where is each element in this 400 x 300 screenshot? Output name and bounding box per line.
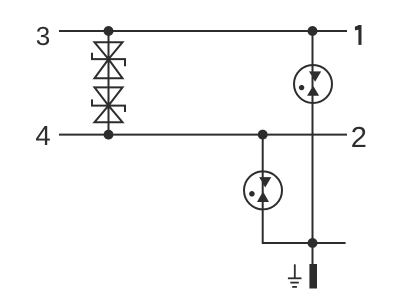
terminal label 1 (355, 25, 362, 45)
PE terminal bar (309, 264, 317, 289)
junction top-left node (104, 26, 114, 36)
junction PE node (308, 238, 318, 248)
gas discharge tube F2 (on line 2) (244, 171, 282, 209)
wire top rail 3-1 (59, 30, 347, 32)
suppressor diode D1 (bidirectional TVS, upper) (92, 42, 125, 78)
wire right branch vertical (1 to PE node) (312, 31, 314, 243)
gas discharge tube F1 (on line 1) (294, 65, 332, 103)
wire middle rail 4-2 (59, 134, 347, 136)
ground (288, 264, 302, 287)
junction bottom-left node (104, 130, 114, 140)
junction top-right node (308, 26, 318, 36)
junction middle node (line 2 branch) (258, 130, 268, 140)
svg-text:2: 2 (351, 122, 367, 154)
wire left branch vertical (108, 31, 110, 135)
svg-text:3: 3 (36, 21, 50, 51)
wire middle branch vertical (2 down to PE rail) (263, 135, 346, 243)
suppressor diode D2 (bidirectional TVS, lower) (92, 87, 125, 122)
svg-text:4: 4 (35, 120, 50, 151)
wire PE stub (312, 243, 314, 265)
